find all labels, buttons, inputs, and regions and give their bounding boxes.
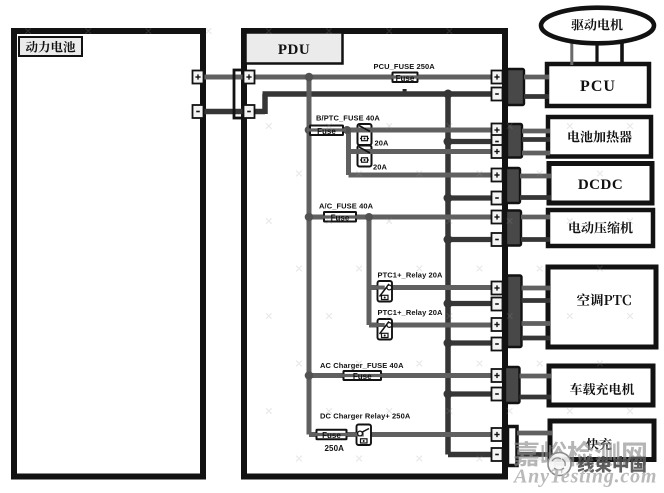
connector block comp [506, 211, 521, 246]
fuse 20A #1 [358, 124, 372, 145]
svg-text:A/C_FUSE 40A: A/C_FUSE 40A [319, 202, 374, 211]
svg-text:DC Charger Relay+ 250A: DC Charger Relay+ 250A [320, 412, 411, 421]
box PCU U2 [547, 64, 649, 106]
pin charger- [492, 388, 503, 401]
negative stub 压缩机 [448, 237, 492, 242]
wire charger positive feed [520, 374, 552, 379]
wire PTC negative feed [522, 336, 551, 341]
wire battery- [196, 109, 265, 115]
svg-text:20A: 20A [375, 139, 390, 148]
svg-text:PCU: PCU [580, 78, 616, 95]
relay DC Charger Relay+ K3 [357, 425, 372, 446]
pin fast+ [492, 428, 503, 441]
wire AC charger row [309, 373, 492, 378]
fuse F5 DC Charger 250A [317, 430, 347, 440]
negative stub 车载充电机 [448, 391, 492, 396]
artifact mark [403, 89, 407, 91]
fuse F4 AC Charger_FUSE 40A [344, 371, 382, 380]
wire PTC relay1 row [369, 285, 492, 290]
pin heater+2 [492, 145, 503, 158]
pin heater+1 [492, 124, 503, 137]
drop to 20A#2 and DCDC+ [346, 128, 351, 175]
relay PTC1+_Relay K2 [378, 319, 393, 340]
wire heater positive feed [522, 129, 550, 134]
junction neg 压缩机 [444, 235, 453, 244]
svg-text:AC Charger_FUSE 40A: AC Charger_FUSE 40A [320, 361, 404, 370]
fuse 20A #2 [358, 146, 372, 167]
wire PTC positive feed [522, 286, 551, 291]
connector block fast charge (outline) [508, 427, 518, 466]
wire A/C row (compressor+) [309, 215, 492, 220]
connector block heater [507, 124, 522, 158]
pin DCDC+ [492, 169, 503, 182]
pin charger+ [492, 369, 503, 382]
junction after B/PTC fuse [343, 126, 351, 134]
pin PDU in - [244, 105, 255, 118]
svg-text:Fuse: Fuse [322, 431, 341, 440]
junction AC charger row [305, 371, 314, 380]
box 空调PTC [548, 267, 656, 347]
wire PTC negative feed [522, 298, 551, 303]
connector block PCU [507, 69, 524, 105]
wire heater positive feed [522, 151, 550, 156]
box 车载充电机 [549, 366, 653, 405]
connector block charger [505, 367, 520, 403]
svg-text:Fuse: Fuse [396, 74, 415, 83]
wire battery+ to PCU (positive rail) [196, 75, 503, 80]
wire B/PTC row [309, 128, 492, 133]
pin comp- [492, 233, 503, 246]
negative stub 电池加热器 [448, 139, 492, 144]
wire DC charger row [309, 432, 492, 437]
junction neg PTC2 [444, 339, 453, 348]
watermark logo circle [548, 453, 571, 476]
wire PCU negative feed [524, 94, 549, 99]
negative stub PTC 2 [448, 340, 492, 345]
svg-text:AnyTesting.com: AnyTesting.com [512, 466, 657, 488]
pin PTC+2 [492, 318, 503, 331]
wire fast positive feed [517, 431, 552, 436]
fuse F3 A/C_FUSE 40A [324, 212, 356, 222]
wire 20A#2 row [349, 149, 493, 154]
junction neg 电池加热器 [444, 137, 453, 146]
svg-text:PDU: PDU [278, 42, 310, 58]
svg-text:Fuse: Fuse [331, 213, 350, 222]
svg-text:DCDC: DCDC [578, 177, 623, 193]
junction positive rail / gray bus [305, 73, 314, 82]
pin DCDC- [492, 192, 503, 205]
connector housing battery-PDU [234, 70, 244, 118]
negative stub 快充 [448, 452, 492, 458]
battery label 动力电池 [19, 37, 82, 56]
pin PTC+1 [492, 282, 503, 295]
box DCDC [549, 164, 652, 204]
wire charger negative feed [520, 395, 552, 400]
negative rail [263, 91, 504, 97]
fuse F1 PCU_FUSE 250A [393, 73, 418, 83]
wire DCDC negative feed [520, 195, 551, 200]
PDU label [246, 33, 343, 64]
wire comp positive feed [521, 215, 550, 220]
wire heater negative feed [522, 137, 550, 142]
junction neg DCDC [444, 194, 453, 203]
pin PDU in + [244, 71, 255, 84]
svg-text:PTC1+_Relay 20A: PTC1+_Relay 20A [378, 308, 444, 317]
wire PTC positive feed [522, 321, 551, 326]
box 电池加热器 [548, 117, 651, 157]
gray bus vertical (positive distribution) [307, 77, 312, 435]
wires motor to PCU [570, 40, 573, 65]
junction A/C fuse row [305, 213, 314, 222]
junction neg 车载充电机 [444, 390, 453, 399]
junction B/PTC fuse row [305, 126, 314, 135]
svg-text:PCU_FUSE 250A: PCU_FUSE 250A [374, 62, 436, 71]
pin fast- [492, 448, 503, 461]
PDU box [244, 31, 505, 477]
svg-text:PTC1+_Relay 20A: PTC1+_Relay 20A [378, 271, 444, 280]
drop to PTC relays [367, 217, 372, 325]
negative stub DCDC [448, 195, 492, 200]
box 电动压缩机 [548, 210, 653, 246]
pin PCU+ [492, 71, 503, 84]
pin heater- [492, 135, 503, 148]
relay PTC1+_Relay K1 [378, 281, 393, 302]
box 快充 [550, 421, 654, 460]
svg-text:20A: 20A [373, 163, 388, 172]
watermark 线束中国 [578, 456, 646, 473]
motor ellipse 驱动电机 M1 [541, 8, 654, 44]
watermark 嘉峪检测网 [514, 441, 646, 467]
wire PCU positive feed [524, 75, 549, 80]
battery box 动力电池 [14, 31, 203, 477]
wire fast negative feed [517, 452, 552, 457]
wire DCDC+ row [349, 173, 493, 178]
fuse F2 B/PTC_FUSE 40A [310, 126, 343, 136]
pin PTC-1 [492, 298, 503, 311]
dark bus vertical (negative distribution) [445, 94, 451, 455]
junction relay drop [365, 213, 373, 221]
negative stub PTC 1 [448, 301, 492, 306]
wire DCDC positive feed [520, 174, 551, 179]
connector block PTC [507, 276, 522, 348]
wire PTC relay2 row [369, 323, 492, 328]
pin battery + [193, 71, 204, 84]
pin PCU- [492, 88, 503, 101]
svg-text:250A: 250A [325, 444, 345, 453]
pin battery - [193, 105, 204, 118]
svg-text:B/PTC_FUSE 40A: B/PTC_FUSE 40A [316, 114, 380, 123]
pin comp+ [492, 211, 503, 224]
junction negative rail / dark bus [444, 90, 453, 99]
wire comp negative feed [521, 237, 550, 242]
connector block DCDC [506, 168, 520, 203]
junction neg PTC1 [444, 299, 453, 308]
svg-text:Fuse: Fuse [353, 372, 372, 381]
pin PTC-2 [492, 338, 503, 351]
